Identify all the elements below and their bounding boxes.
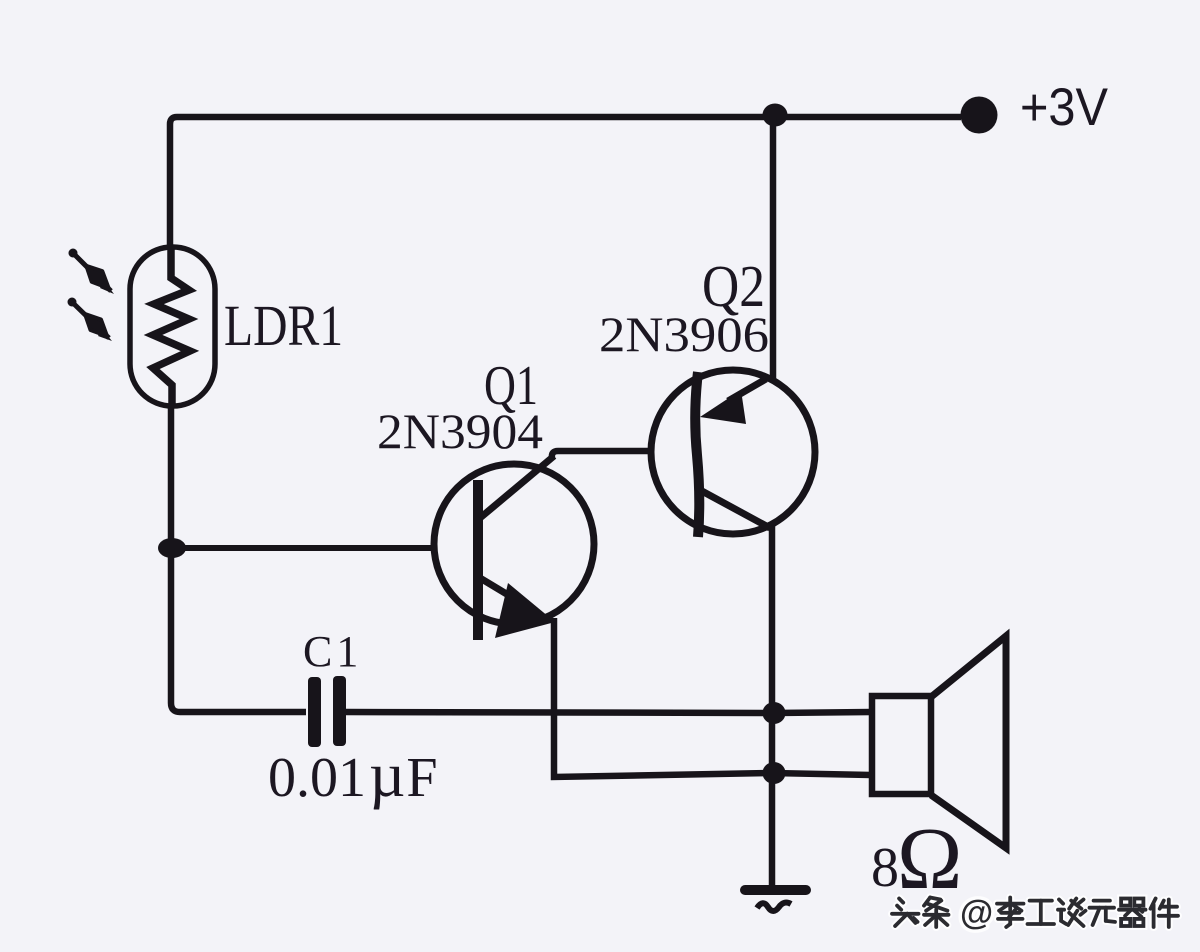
transistor Q1 circle <box>434 464 594 624</box>
ground <box>745 885 806 895</box>
transistor Q2 emitter arrowhead (PNP) <box>700 390 746 424</box>
node junction at Q1 base wire <box>158 538 186 558</box>
wire top +3V rail <box>170 117 961 249</box>
svg-text:@: @ <box>960 894 993 932</box>
resistor LDR1 body (stadium outline) <box>130 247 215 406</box>
wire Q2 collector down to ground <box>769 526 776 886</box>
svg-text:+3V: +3V <box>1020 78 1109 137</box>
svg-text:C1: C1 <box>303 627 362 676</box>
transistor Q2 collector line <box>700 490 770 528</box>
wire capacitor right to speaker <box>346 712 871 713</box>
svg-text:8: 8 <box>871 837 899 899</box>
light arrow 1 <box>69 249 115 295</box>
wire from top rail down to Q2 emitter <box>770 117 777 379</box>
svg-text:LDR1: LDR1 <box>224 293 343 358</box>
svg-text:Ω: Ω <box>897 811 962 908</box>
watermark <box>892 898 1178 928</box>
speaker body rectangle <box>872 696 931 794</box>
transistor Q2 emitter line <box>728 379 766 401</box>
wire base of Q1 <box>171 545 432 551</box>
ground squiggle <box>757 903 791 911</box>
transistor Q1 base bar <box>473 480 483 640</box>
node junction emitter wire / collector <box>763 762 786 784</box>
transistor Q1 collector line <box>480 456 554 518</box>
node +3V terminal <box>961 97 998 134</box>
capacitor C1 plate left <box>308 677 321 747</box>
capacitor C1 plate right <box>333 676 346 746</box>
speaker cone <box>931 636 1006 848</box>
wire Q1 collector to Q2 base <box>552 451 650 458</box>
svg-text:2N3904: 2N3904 <box>377 403 543 459</box>
transistor Q1 emitter line <box>480 578 520 602</box>
svg-text:0.01µF: 0.01µF <box>268 740 437 810</box>
transistor Q2 base bar <box>695 372 699 537</box>
transistor Q2 circle <box>651 370 815 534</box>
svg-text:2N3906: 2N3906 <box>599 306 769 362</box>
transistor Q1 emitter arrowhead <box>495 583 555 638</box>
light arrow 2 <box>68 298 113 342</box>
node junction cap wire / collector <box>763 702 786 724</box>
resistor LDR1 zigzag element <box>153 249 190 406</box>
wire LDR bottom down to base node <box>168 406 175 548</box>
wire LDR node down to capacitor <box>171 548 306 712</box>
wire Q1 emitter down and right to speaker <box>554 618 871 777</box>
node junction top rail <box>763 104 788 127</box>
